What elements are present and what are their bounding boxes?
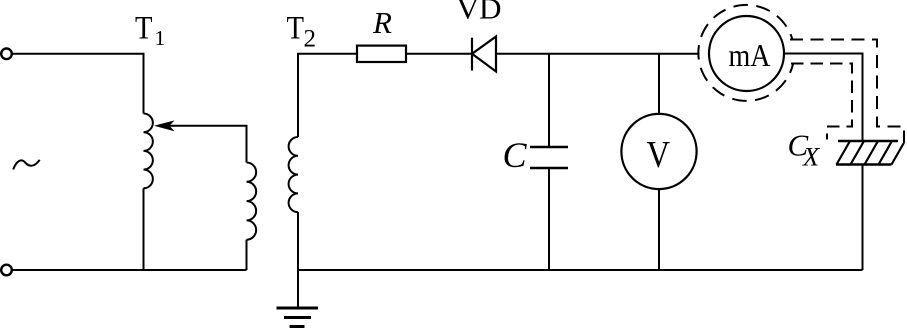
winding T2 primary	[247, 163, 257, 240]
capacitor C bottom plate	[530, 167, 568, 170]
svg-text:T: T	[135, 11, 153, 47]
shield outer dashed run	[790, 40, 904, 151]
wire: bottom bus (secondary side)	[298, 269, 863, 271]
svg-text:T: T	[287, 11, 305, 47]
tap arrow head	[154, 120, 175, 131]
wire: resistor to diode	[406, 53, 472, 55]
resistor R	[357, 46, 406, 62]
wire: bottom bus (left/primary side)	[12, 269, 247, 271]
wire: C to bottom bus	[548, 169, 550, 270]
winding T2 secondary	[289, 137, 298, 212]
wire: top bus to voltmeter	[658, 54, 660, 114]
terminal J1 (top-left)	[1, 49, 12, 60]
terminal J2 (bottom-left)	[1, 265, 12, 276]
diode VD triangle	[472, 37, 496, 72]
svg-text:2: 2	[304, 26, 317, 53]
milliammeter mA	[709, 16, 784, 91]
capacitor C top plate	[530, 146, 568, 149]
svg-text:C: C	[503, 135, 528, 175]
wire: top bus to C	[548, 54, 550, 146]
ground	[277, 307, 319, 310]
svg-text:VD: VD	[457, 0, 502, 26]
svg-text:X: X	[802, 142, 821, 172]
winding T1 (autotransformer)	[144, 114, 153, 189]
wire: voltmeter to bottom bus	[658, 189, 660, 270]
shield (dashed circle around mA)	[698, 5, 793, 101]
wire: top terminal to T1 top	[12, 54, 144, 114]
wire: diode to mA shield	[496, 53, 700, 55]
svg-text:mA: mA	[729, 37, 771, 73]
wire: T1 bottom to bus	[143, 188, 145, 270]
wire: Cx to bottom bus	[862, 165, 864, 271]
svg-text:V: V	[647, 134, 671, 176]
diode VD cathode bar	[471, 38, 473, 71]
AC source symbol ~	[13, 160, 40, 170]
voltmeter V	[621, 114, 696, 189]
capacitor Cx bottom electrode line	[836, 163, 892, 165]
shield inner dashed run	[791, 64, 852, 140]
svg-text:R: R	[372, 5, 392, 40]
capacitor Cx hatch	[837, 141, 904, 165]
svg-text:1: 1	[155, 26, 166, 50]
wire: mA to Cx	[784, 54, 863, 141]
capacitor Cx top electrode line	[838, 140, 898, 142]
wire: T2 primary bottom to bus	[246, 240, 248, 270]
wire: T2 secondary top to resistor	[298, 54, 357, 137]
wire: tap to T2 primary	[167, 126, 247, 163]
wire: T2 secondary bottom to ground	[297, 212, 299, 307]
